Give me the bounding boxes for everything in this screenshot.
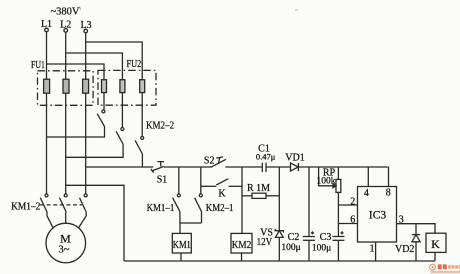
svg-text:8: 8	[386, 187, 391, 198]
fuse FU2 pole2	[120, 80, 125, 93]
pin 1 label	[370, 244, 375, 255]
fuse box FU1	[38, 71, 94, 106]
label 100k	[317, 177, 336, 187]
relay coil K	[426, 233, 446, 252]
capacitor C1	[262, 163, 266, 173]
svg-text:1: 1	[370, 244, 375, 255]
pin 8 label	[386, 187, 391, 198]
wire bus VD1 to pin8	[298, 166, 388, 168]
svg-text:2: 2	[350, 196, 355, 207]
diode VD1	[291, 163, 299, 171]
capacitor C2	[303, 231, 315, 240]
pin 6 label	[350, 215, 355, 226]
fuse FU1 pole1	[44, 79, 50, 93]
label L1	[41, 19, 52, 30]
wire bus S1 to S2	[164, 166, 212, 168]
wire KM1 coil bottom	[180, 253, 182, 261]
wire branch to KM2-1 and K	[200, 167, 202, 194]
svg-text:VD1: VD1	[285, 152, 304, 163]
wire KM2-2 pole3 to bus	[141, 154, 143, 167]
contact KM1-1	[173, 194, 181, 212]
pin 3 wire	[397, 224, 436, 234]
capacitor C3	[332, 231, 344, 240]
wire motor lead 3	[79, 212, 86, 228]
svg-text:6: 6	[350, 215, 355, 226]
label FU2	[127, 59, 142, 70]
svg-text:100k: 100k	[317, 177, 336, 187]
pin 3 label	[399, 215, 404, 226]
wire L2 tap to FU2 fuse2	[66, 53, 123, 127]
label C2	[288, 232, 300, 243]
speck	[295, 9, 298, 11]
svg-text:S2: S2	[204, 155, 215, 166]
wire KM2 coil feed	[241, 167, 243, 233]
motor M	[46, 223, 86, 263]
contact KM1-2 pole1	[40, 194, 48, 212]
label VD2	[395, 244, 414, 255]
pin 8 wire	[388, 167, 390, 187]
svg-text:KM1: KM1	[173, 239, 191, 251]
wire KM2-2 pole1 to L1 line	[47, 127, 105, 138]
contact KM2-1	[195, 194, 203, 212]
wire phase L1	[46, 32, 48, 194]
label L3	[80, 20, 91, 31]
pin 2 wire	[338, 204, 357, 206]
svg-text:100μ: 100μ	[312, 243, 331, 253]
wire RP C3 branch	[337, 167, 339, 261]
contact KM1-2 pole2	[60, 194, 68, 212]
pin 4 wire	[367, 167, 369, 187]
label M	[60, 231, 71, 245]
label 0.47u	[256, 152, 276, 162]
fuse FU2 pole1	[102, 80, 107, 93]
svg-text:M: M	[60, 231, 71, 245]
wire KM2-2 pole2 to L2 line	[66, 144, 123, 157]
svg-text:KM1–1: KM1–1	[147, 203, 175, 214]
wire control bus left	[86, 166, 154, 168]
wire KM1-1 to coil KM1	[179, 212, 181, 234]
fuse FU1 pole3	[83, 79, 89, 93]
label ~380V	[50, 7, 79, 18]
svg-text:KM1–2: KM1–2	[11, 201, 40, 212]
label KM1	[173, 239, 191, 251]
wire phase L3	[85, 33, 87, 194]
svg-text:100μ: 100μ	[281, 243, 300, 253]
coil KM2	[231, 233, 252, 253]
terminal L3	[84, 29, 88, 33]
svg-text:~380V: ~380V	[50, 7, 79, 18]
fuse FU2 pole3	[140, 80, 145, 93]
contact KM2-2 pole3	[135, 136, 144, 154]
wire bottom bus feed from L2	[66, 185, 124, 261]
bottom bus wire	[124, 260, 435, 262]
wire L3 tap to FU2 fuse3	[86, 42, 143, 136]
label C1	[258, 143, 270, 154]
wire motor lead 2	[65, 212, 67, 223]
label RP	[323, 167, 336, 178]
fuse FU1 pole2	[63, 79, 69, 93]
terminal L1	[45, 28, 49, 32]
wire link KM2-1 to KM1 coil	[180, 222, 202, 224]
coil KM1	[172, 233, 191, 253]
svg-text:IC3: IC3	[369, 210, 387, 222]
watermark logo	[430, 264, 436, 270]
pin 6 wire	[338, 223, 357, 225]
svg-text:KM2–2: KM2–2	[146, 120, 174, 131]
label 100u C3	[312, 243, 331, 253]
svg-text:FU2: FU2	[127, 59, 142, 70]
mechanical link KM1-2	[40, 204, 82, 206]
label 100u C2	[281, 243, 300, 253]
svg-text:KM2: KM2	[232, 239, 252, 251]
pin 2 label	[350, 196, 355, 207]
wire R branch left	[242, 195, 252, 197]
label R 1M	[247, 183, 270, 194]
wire phase L2	[65, 32, 67, 194]
wire zener branch	[278, 167, 280, 261]
svg-text:S1: S1	[157, 175, 168, 186]
svg-text:FU1: FU1	[31, 60, 45, 71]
wire C2 branch	[308, 167, 310, 261]
label S1	[157, 175, 168, 186]
pin 4 label	[364, 188, 369, 199]
label VS	[260, 228, 273, 239]
contact KM2-2 pole1	[97, 110, 105, 127]
svg-text:3~: 3~	[59, 244, 70, 255]
svg-text:C2: C2	[288, 232, 300, 243]
svg-text:K: K	[431, 237, 440, 251]
relay contact K	[216, 179, 228, 185]
wire branch to KM1-1	[178, 167, 180, 194]
label K coil	[431, 237, 440, 251]
wire bus C1 to VD1	[266, 166, 291, 168]
label S2	[204, 155, 215, 166]
label FU1	[31, 60, 45, 71]
potentiometer RP	[319, 167, 341, 192]
label C3	[320, 232, 332, 243]
op-amp U IC3	[358, 187, 397, 243]
wire R branch right	[266, 195, 279, 197]
watermark text	[438, 264, 447, 269]
label VD1	[285, 152, 304, 163]
svg-text:0.47μ: 0.47μ	[256, 152, 276, 162]
fuse box FU2	[98, 70, 156, 105]
label KM2	[232, 239, 252, 251]
resistor R 1M	[252, 193, 266, 198]
svg-text:K: K	[218, 188, 226, 199]
wire K coil bottom	[434, 252, 436, 261]
wire L1 tap to FU2 fuse1	[47, 64, 105, 110]
label KM2-2	[146, 120, 174, 131]
terminal L2	[64, 29, 68, 33]
label 12V	[257, 237, 273, 248]
wire KM2-1 down	[201, 212, 203, 223]
wire bus S2 to C1	[225, 166, 262, 168]
tick mark	[79, 7, 82, 10]
svg-text:C3: C3	[320, 232, 332, 243]
wire K branch left	[201, 185, 217, 187]
contact KM2-2 pole2	[116, 128, 124, 145]
pushbutton S2	[211, 157, 226, 167]
pin 1 wire	[375, 242, 377, 261]
label KM2-1	[206, 203, 234, 214]
label KM1-2	[11, 201, 40, 212]
diode VD2	[412, 224, 420, 261]
svg-text:12V: 12V	[257, 237, 273, 248]
label K	[218, 188, 226, 199]
svg-text:4: 4	[364, 188, 369, 199]
zener diode VS	[275, 229, 283, 238]
label 3~	[59, 244, 70, 255]
label L2	[60, 19, 71, 30]
svg-text:3: 3	[399, 215, 404, 226]
svg-text:VD2: VD2	[395, 244, 414, 255]
wire KM2 coil bottom	[241, 253, 243, 261]
contact KM1-2 pole3	[80, 194, 88, 212]
label IC3	[369, 210, 387, 222]
svg-text:R 1M: R 1M	[247, 183, 270, 194]
label KM1-1	[147, 203, 175, 214]
pushbutton S1	[151, 162, 164, 173]
wire motor lead 1	[47, 212, 53, 228]
wire K branch right	[229, 185, 242, 187]
svg-text:KM2–1: KM2–1	[206, 203, 234, 214]
